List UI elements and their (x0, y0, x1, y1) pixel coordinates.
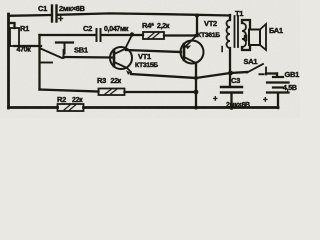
wire bottom rail left of R2 (9, 106, 58, 109)
svg-text:4,5В: 4,5В (283, 85, 297, 92)
svg-text:C3: C3 (231, 76, 240, 85)
label GB1 minus polarity (259, 73, 265, 75)
svg-text:R4*: R4* (142, 21, 154, 30)
wire SB1 left contact vertical down to R3 wire (38, 35, 40, 90)
wire R1 bottom to SB1 node (15, 45, 42, 47)
junction node at VT2 collector / bottom rail (194, 106, 198, 110)
svg-text:T1: T1 (235, 9, 243, 18)
svg-text:VT1: VT1 (138, 52, 151, 61)
svg-text:R2: R2 (57, 95, 66, 104)
wire SB1 to VT1 base (64, 56, 113, 59)
switch SA1 (247, 64, 277, 75)
capacitor C3 (221, 87, 242, 108)
junction node on top rail at VT2 emitter branch (195, 14, 199, 18)
svg-text:22к: 22к (72, 97, 83, 104)
capacitor C2 (97, 29, 101, 41)
svg-text:R1: R1 (20, 24, 29, 33)
wire bottom rail right of R2 (84, 106, 279, 109)
battery GB1 (267, 74, 289, 109)
svg-text:+: + (213, 94, 218, 103)
svg-text:C2: C2 (83, 24, 92, 33)
transformer T1 core (235, 16, 239, 47)
pushbutton SB1 (40, 43, 74, 63)
wire top rail right segment (58, 13, 231, 15)
transformer T1 winding II (242, 20, 250, 50)
junction node at C3 bottom rail (230, 106, 234, 110)
svg-text:2мк×6В: 2мк×6В (226, 102, 250, 109)
svg-text:SB1: SB1 (74, 46, 88, 55)
wire VT1 collector to VT2 base (126, 50, 181, 52)
svg-text:22к: 22к (111, 78, 122, 85)
wire C2 left segment (40, 34, 96, 36)
svg-text:II: II (244, 34, 248, 43)
junction node at transformer bottom / C3 (228, 71, 233, 76)
wire VT2 emitter node up to top rail (196, 15, 198, 35)
svg-text:2,2к: 2,2к (157, 23, 170, 30)
junction node at R4 left / VT1 collector (130, 32, 134, 36)
svg-text:+: + (263, 95, 268, 104)
svg-text:470к: 470к (17, 47, 32, 54)
wire node X to transformer junction (196, 73, 230, 78)
svg-text:БА1: БА1 (269, 26, 283, 35)
wire R4 right to VT2 emitter node (164, 34, 196, 36)
junction node at VT2 collector / R3 wire (194, 90, 199, 95)
resistor R3 (99, 89, 125, 96)
wire VT2 collector vertical (195, 63, 197, 108)
wire R3 right to VT2 collector (125, 91, 197, 93)
transformer T1 winding I (227, 15, 231, 86)
speaker BA1 (249, 24, 266, 50)
svg-text:КТ315Б: КТ315Б (135, 62, 158, 69)
wire left edge vertical (7, 14, 10, 108)
resistor R1 (9, 23, 19, 46)
svg-text:R3: R3 (97, 76, 106, 85)
svg-text:C1: C1 (38, 4, 47, 13)
svg-text:2мк×6В: 2мк×6В (59, 4, 86, 13)
svg-text:КТ361Б: КТ361Б (197, 32, 220, 39)
svg-text:+: + (58, 14, 63, 24)
junction node at VT2 emitter / R4 right (194, 34, 198, 38)
resistor R2 (58, 104, 84, 111)
capacitor C1 (52, 6, 57, 22)
svg-text:SA1: SA1 (244, 57, 258, 66)
wire VT1 emitter run to node X (131, 74, 196, 78)
transistor VT2 (181, 36, 204, 64)
transistor VT1 (110, 35, 132, 75)
wire R3 left from SB1 bottom (40, 90, 99, 92)
wire C2 right to R4 (102, 34, 144, 36)
wire top rail left segment (9, 14, 52, 17)
resistor R4 (143, 32, 164, 39)
junction node X at VT2 collector / emitter wire (194, 76, 198, 80)
svg-text:GB1: GB1 (285, 70, 300, 79)
svg-text:0,047мк: 0,047мк (104, 26, 129, 33)
wire transformer junction to SA1 (230, 72, 247, 73)
svg-text:VT2: VT2 (204, 19, 217, 28)
svg-text:I: I (221, 45, 223, 54)
